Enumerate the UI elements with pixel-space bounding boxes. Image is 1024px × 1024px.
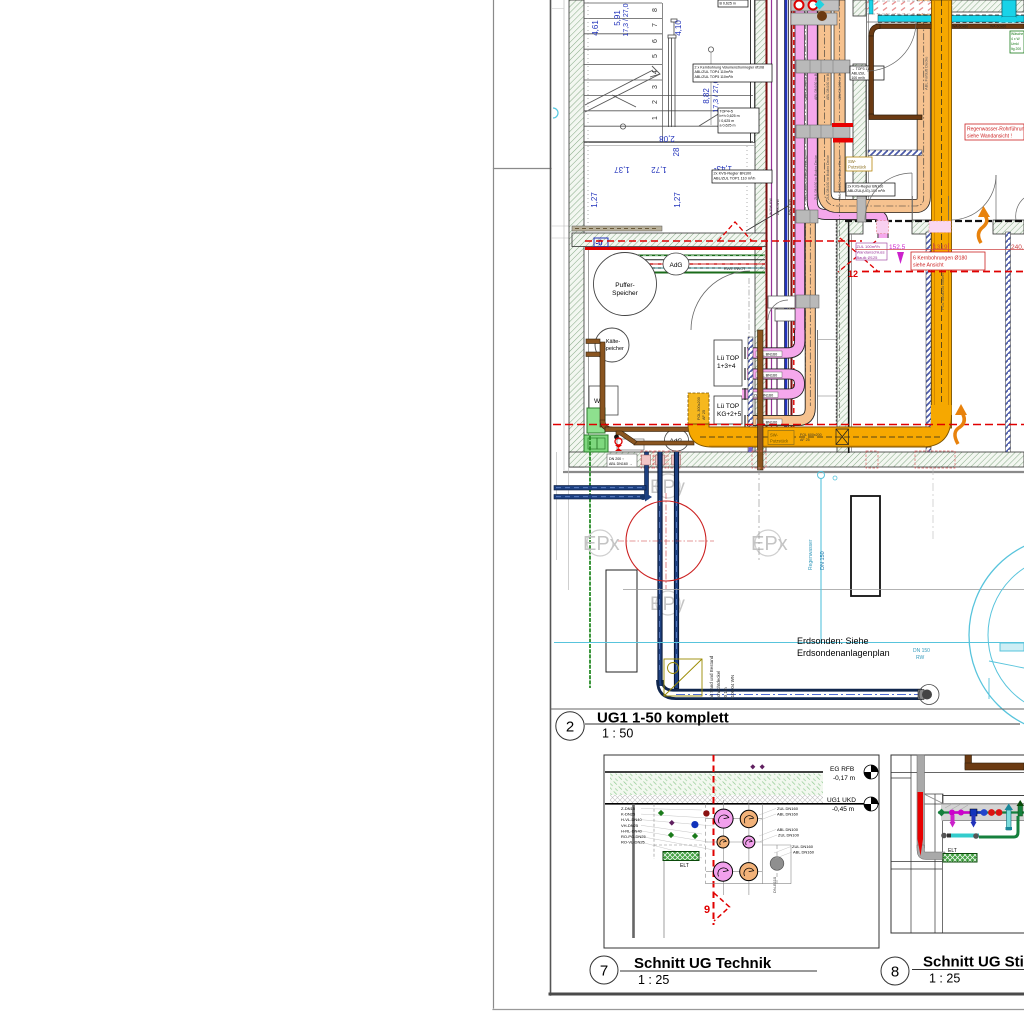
svg-text:1,72: 1,72 bbox=[651, 165, 667, 174]
svg-text:siehe Wandansicht !: siehe Wandansicht ! bbox=[967, 134, 1012, 140]
svg-text:Z-DN15: Z-DN15 bbox=[621, 806, 636, 811]
svg-text:17,3 / 27,0: 17,3 / 27,0 bbox=[713, 79, 720, 112]
svg-text:Speicher: Speicher bbox=[602, 346, 624, 352]
svg-text:1,27: 1,27 bbox=[673, 192, 682, 208]
svg-text:-0,45 m: -0,45 m bbox=[832, 806, 854, 813]
svg-text:Putzstück: Putzstück bbox=[770, 439, 789, 444]
svg-text:Regenwasser-Rohrführung: Regenwasser-Rohrführung bbox=[967, 127, 1024, 133]
svg-text:Schnitt UG Stiegenhaus: Schnitt UG Stiegenhaus bbox=[923, 954, 1024, 971]
svg-text:W-BW-KW: W-BW-KW bbox=[769, 198, 773, 215]
svg-text:7: 7 bbox=[652, 23, 659, 27]
svg-text:5,91: 5,91 bbox=[613, 10, 622, 26]
svg-text:DN 150: DN 150 bbox=[820, 551, 826, 570]
svg-text:ABL/ZUL TOP4 110m³/h: ABL/ZUL TOP4 110m³/h bbox=[695, 70, 734, 74]
svg-text:EG RFB: EG RFB bbox=[830, 766, 854, 773]
svg-text:ABL/ZUL TOP5 110m³/h: ABL/ZUL TOP5 110m³/h bbox=[695, 75, 734, 79]
svg-text:ZUL DN160: ZUL DN160 bbox=[792, 844, 814, 849]
svg-text:RW: RW bbox=[916, 655, 925, 661]
svg-text:240,8: 240,8 bbox=[1011, 244, 1024, 251]
svg-text:Erdsondenanlagenplan: Erdsondenanlagenplan bbox=[797, 648, 890, 658]
svg-text:9: 9 bbox=[704, 904, 710, 916]
svg-text:2,08: 2,08 bbox=[659, 134, 675, 143]
svg-text:6: 6 bbox=[652, 39, 659, 43]
svg-text:152,5: 152,5 bbox=[889, 244, 906, 251]
svg-text:-0: -0 bbox=[595, 239, 603, 248]
svg-text:Lü TOP: Lü TOP bbox=[717, 403, 739, 410]
svg-text:6 Kernbohrungen Ø180: 6 Kernbohrungen Ø180 bbox=[913, 256, 967, 262]
svg-text:AF 25: AF 25 bbox=[702, 410, 706, 420]
svg-text:SW-: SW- bbox=[770, 433, 779, 438]
svg-text:+100,04 WN: +100,04 WN bbox=[730, 675, 735, 700]
svg-text:17,3 / 27,0: 17,3 / 27,0 bbox=[623, 3, 630, 36]
svg-text:1 : 25: 1 : 25 bbox=[638, 973, 669, 987]
svg-text:2x KVS-Regler BN100: 2x KVS-Regler BN100 bbox=[714, 172, 752, 176]
svg-text:2: 2 bbox=[652, 100, 659, 104]
svg-text:FOL 600x200: FOL 600x200 bbox=[800, 433, 822, 437]
svg-text:ABL Fortluft Decke: ABL Fortluft Decke bbox=[924, 56, 929, 90]
svg-text:KALT-WW: KALT-WW bbox=[788, 198, 792, 215]
svg-text:ELT: ELT bbox=[680, 863, 689, 869]
svg-text:ltg 200: ltg 200 bbox=[1011, 47, 1021, 51]
svg-text:7: 7 bbox=[600, 963, 608, 980]
svg-text:AF 25: AF 25 bbox=[800, 438, 810, 442]
svg-text:ZUL DN160 im Boden Decke: ZUL DN160 im Boden Decke bbox=[838, 155, 842, 200]
svg-text:Wandanschluss: Wandanschluss bbox=[857, 250, 885, 255]
svg-text:b+h 0,625 m: b+h 0,625 m bbox=[720, 114, 740, 118]
svg-text:8: 8 bbox=[891, 964, 899, 981]
svg-text:1319: 1319 bbox=[933, 244, 948, 251]
svg-text:ABL/ZUL: ABL/ZUL bbox=[852, 72, 866, 76]
svg-text:ZUL DN100: ZUL DN100 bbox=[778, 833, 800, 838]
svg-text:4 x W: 4 x W bbox=[1011, 37, 1020, 41]
svg-text:WA 60x60: WA 60x60 bbox=[990, 25, 1006, 29]
svg-text:ZUL DN160 im Boden Decke: ZUL DN160 im Boden Decke bbox=[826, 155, 830, 200]
svg-text:+0,1m: +0,1m bbox=[723, 687, 728, 700]
svg-text:8,82: 8,82 bbox=[702, 88, 711, 104]
svg-text:ZUL BN160: ZUL BN160 bbox=[754, 393, 774, 397]
svg-text:Erdsonden: Siehe: Erdsonden: Siehe bbox=[797, 636, 869, 646]
svg-text:Wäsche: Wäsche bbox=[1011, 32, 1023, 36]
svg-text:5: 5 bbox=[652, 54, 659, 58]
svg-text:ZUL DN160: ZUL DN160 bbox=[777, 806, 799, 811]
svg-text:ZUL DN160 im Boden Decke: ZUL DN160 im Boden Decke bbox=[804, 155, 808, 200]
svg-text:l 0,625 m: l 0,625 m bbox=[720, 119, 735, 123]
svg-text:ABL DN160: ABL DN160 bbox=[793, 850, 815, 855]
svg-text:SW-: SW- bbox=[848, 159, 857, 164]
svg-text:H-RL-DN40: H-RL-DN40 bbox=[621, 828, 643, 833]
svg-text:4,61: 4,61 bbox=[591, 20, 600, 36]
svg-text:ABL/ZUL TOP1 110 m³/h: ABL/ZUL TOP1 110 m³/h bbox=[714, 177, 756, 181]
svg-text:DN 200 ↑: DN 200 ↑ bbox=[609, 457, 624, 461]
svg-text:2 x Kernbohrung Volumenstromre: 2 x Kernbohrung Volumenstromregler Ø108 bbox=[695, 65, 765, 69]
svg-text:3: 3 bbox=[652, 85, 659, 89]
svg-text:H-VL-DN40: H-VL-DN40 bbox=[621, 817, 642, 822]
svg-text:KWL RWCT: KWL RWCT bbox=[724, 266, 746, 271]
svg-text:K-DN25: K-DN25 bbox=[621, 812, 636, 817]
svg-text:100 m³/h: 100 m³/h bbox=[852, 76, 865, 80]
svg-text:12: 12 bbox=[848, 269, 858, 279]
svg-text:1,37: 1,37 bbox=[614, 165, 630, 174]
svg-text:ABL/ZUL(UG)-100 m³/h: ABL/ZUL(UG)-100 m³/h bbox=[848, 189, 886, 193]
svg-text:ABL DN160: ABL DN160 bbox=[777, 812, 799, 817]
svg-text:DN 150: DN 150 bbox=[913, 648, 930, 654]
svg-text:KG+2+5: KG+2+5 bbox=[717, 411, 742, 418]
svg-text:1,27: 1,27 bbox=[590, 192, 599, 208]
svg-text:TOP4+5: TOP4+5 bbox=[720, 109, 733, 113]
svg-text:WA 60x60: WA 60x60 bbox=[952, 25, 968, 29]
svg-text:ZUL DN160 im Boden Decke: ZUL DN160 im Boden Decke bbox=[814, 155, 818, 200]
svg-text:ABL DN160 →: ABL DN160 → bbox=[609, 462, 632, 466]
svg-text:VH-DN25: VH-DN25 bbox=[621, 823, 639, 828]
svg-text:Puffer-: Puffer- bbox=[615, 282, 634, 289]
svg-text:28: 28 bbox=[672, 147, 681, 156]
svg-text:Speicher: Speicher bbox=[612, 290, 638, 297]
svg-text:ABL DN100: ABL DN100 bbox=[777, 827, 799, 832]
svg-text:FOL 300x200: FOL 300x200 bbox=[697, 397, 701, 420]
svg-text:EPx: EPx bbox=[583, 533, 620, 555]
svg-text:Schnitt UG Technik: Schnitt UG Technik bbox=[634, 955, 772, 972]
svg-text:Schachtdeckel: Schachtdeckel bbox=[716, 671, 721, 700]
svg-text:2: 2 bbox=[566, 719, 574, 736]
svg-text:Putzstück: Putzstück bbox=[848, 165, 867, 170]
svg-text:Regenwasser: Regenwasser bbox=[808, 539, 814, 570]
svg-text:Kälte-: Kälte- bbox=[606, 339, 621, 345]
svg-text:RO-PG-DN25: RO-PG-DN25 bbox=[621, 834, 646, 839]
svg-text:-0,17 m: -0,17 m bbox=[833, 775, 855, 782]
svg-text:1+3+4: 1+3+4 bbox=[717, 363, 736, 370]
svg-text:1 : 50: 1 : 50 bbox=[602, 727, 633, 741]
svg-text:Umkl: Umkl bbox=[1011, 42, 1019, 46]
svg-text:UG1 UKD: UG1 UKD bbox=[827, 797, 856, 804]
svg-text:RO-VL-DN25: RO-VL-DN25 bbox=[621, 840, 646, 845]
svg-text:Lü TOP: Lü TOP bbox=[717, 355, 739, 362]
svg-text:4,10: 4,10 bbox=[674, 20, 683, 36]
svg-text:ZUL 100m³/h: ZUL 100m³/h bbox=[857, 244, 880, 249]
svg-text:8: 8 bbox=[652, 8, 659, 12]
svg-text:AdG: AdG bbox=[669, 262, 682, 269]
svg-text:a 0,625 m: a 0,625 m bbox=[720, 124, 736, 128]
svg-text:EPy: EPy bbox=[650, 594, 685, 615]
svg-text:FOL 300x200 Boden: FOL 300x200 Boden bbox=[940, 273, 945, 310]
svg-text:DN-B110: DN-B110 bbox=[772, 876, 777, 893]
svg-text:siehe Ansicht: siehe Ansicht bbox=[913, 263, 944, 269]
svg-text:→ TOP3 110: → TOP3 110 bbox=[852, 67, 872, 71]
svg-text:1 : 25: 1 : 25 bbox=[929, 972, 960, 986]
svg-text:1: 1 bbox=[652, 116, 659, 120]
svg-text:4: 4 bbox=[652, 70, 659, 74]
svg-text:B 0,625 m: B 0,625 m bbox=[720, 1, 736, 5]
svg-text:mit Sand und Bestand: mit Sand und Bestand bbox=[709, 655, 714, 700]
svg-text:EPx: EPx bbox=[751, 533, 788, 555]
svg-text:Baulk Ø125: Baulk Ø125 bbox=[857, 255, 879, 260]
svg-text:EPy: EPy bbox=[650, 477, 685, 498]
